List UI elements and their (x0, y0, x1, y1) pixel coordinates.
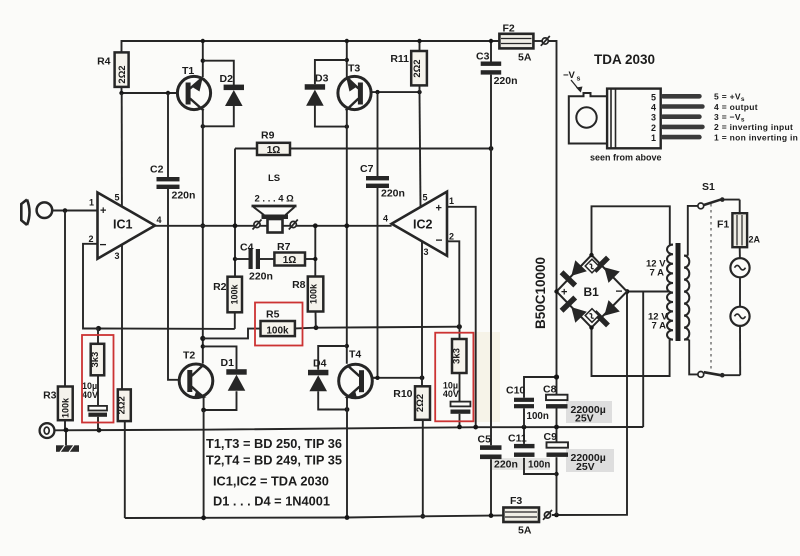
wire C3/C5 long column (490, 41, 492, 62)
B1 ac mark bottom (585, 309, 599, 323)
node B1 bottom corner junction (589, 325, 593, 329)
wire D2 top branch (203, 61, 234, 85)
scan tint patch behind C5/C11 values (492, 458, 550, 470)
wire B1 bottom branch to secondary bottom (592, 328, 670, 376)
input jack symbol (21, 200, 52, 226)
label 12V 7A upper (646, 259, 666, 279)
svg-text:100n: 100n (527, 411, 549, 422)
node R4/pin5 junction (119, 91, 123, 95)
wire D3 bottom branch (315, 103, 347, 127)
pin 5 (661, 94, 702, 99)
wire D1 top link (203, 346, 237, 369)
fuse F2 (499, 23, 533, 64)
wire T4 emitter down to bottom rail (346, 398, 348, 518)
wire R5 left link (203, 329, 261, 339)
red highlight box 1 (82, 335, 114, 423)
svg-text:100k: 100k (230, 283, 240, 304)
wire R4 bottom to T1 base (122, 87, 178, 93)
transistor T1 (177, 65, 210, 111)
wire S1 top pole to primary (688, 206, 698, 256)
wire C10 top link to +V column (524, 377, 557, 398)
node 3k3-1 top junction (96, 326, 101, 331)
svg-text:R11: R11 (390, 53, 409, 65)
node 10u-1 bottom junction (97, 428, 102, 433)
node C7 top junction (375, 90, 379, 94)
node R10 top junction (420, 375, 425, 380)
svg-text:R7: R7 (277, 241, 291, 253)
transformer (667, 243, 689, 341)
capacitor C7 (360, 163, 405, 200)
svg-text:C9: C9 (544, 431, 558, 443)
node C4 tap junction (233, 257, 237, 261)
svg-text:C8: C8 (543, 384, 557, 396)
svg-text:+: + (100, 205, 106, 217)
node bottom rail T2 junction (201, 515, 206, 520)
node T2 emitter junction (201, 408, 206, 413)
node T4 emitter junction (345, 407, 350, 412)
wire IC1 pin5 vertical (121, 93, 123, 207)
node C3 rail junction (489, 39, 493, 43)
node bottom rail C5 junction (489, 513, 494, 518)
wire T4 base line to IC2 pin3 column (372, 377, 422, 379)
svg-text:T2: T2 (183, 350, 195, 362)
op-amp IC1 (89, 193, 162, 262)
svg-text:F2: F2 (503, 23, 515, 35)
wire T2 emitter/D1 bottom link (204, 391, 237, 410)
svg-text:C3: C3 (476, 51, 490, 63)
svg-text:+: + (436, 203, 442, 215)
svg-text:IC1,IC2 = TDA 2030: IC1,IC2 = TDA 2030 (213, 474, 329, 489)
node R5 tap junction (200, 336, 205, 341)
scan tint patch behind C9 value (566, 449, 614, 472)
wire R10 bottom lead (422, 420, 424, 517)
pin 2 (661, 125, 705, 130)
wire T1 emitter chain down to T2 collector (202, 110, 204, 364)
svg-text:−: − (100, 238, 107, 252)
transistor T4 (339, 349, 373, 399)
wire IC2 pin1 loop (447, 207, 476, 427)
node T3/D3 bottom junction (345, 124, 349, 128)
svg-text:D4: D4 (313, 358, 327, 370)
wire F2 right to corner and +V vertical down to C8 (533, 40, 542, 42)
svg-text:2A: 2A (749, 235, 761, 245)
diode in B1 bottom-left edge (560, 296, 588, 324)
wire C10 bottom lead (523, 408, 525, 427)
svg-text:D1 . . . D4 = 1N4001: D1 . . . D4 = 1N4001 (213, 494, 330, 509)
svg-text:100k: 100k (266, 326, 289, 337)
resistor R4 (97, 52, 129, 87)
svg-text:100n: 100n (528, 459, 550, 470)
svg-text:3k3: 3k3 (90, 352, 101, 368)
svg-text:T2,T4 = BD 249, TIP 35: T2,T4 = BD 249, TIP 35 (206, 453, 342, 468)
diode D3 (305, 73, 329, 106)
node T4 base / C7 junction (375, 376, 379, 380)
pin 3 (661, 114, 702, 119)
capacitor C3 (476, 51, 518, 88)
wire D4 bottom / T4 emitter link (318, 391, 347, 409)
terminal 0 (40, 423, 55, 438)
svg-text:C4: C4 (240, 242, 254, 254)
svg-text:S1: S1 (702, 181, 715, 193)
wire R11 leads (419, 41, 421, 51)
wire C7 branch lower to T4 base (372, 188, 378, 378)
svg-text:100k: 100k (309, 283, 319, 304)
diode in B1 bottom-right edge (593, 299, 621, 327)
node C8 ground junction (554, 425, 559, 430)
node B1 top corner junction (589, 253, 593, 257)
node bottom rail T4 junction (345, 515, 350, 520)
svg-text:5: 5 (423, 193, 428, 203)
node R7 right junction (313, 257, 317, 261)
svg-text:−: − (436, 233, 443, 247)
resistor R10 (393, 386, 430, 420)
svg-text:R4: R4 (97, 56, 111, 68)
svg-text:5: 5 (651, 93, 656, 103)
capacitor 10u left electrolytic (82, 375, 107, 430)
capacitor C10 (506, 385, 549, 423)
wire IC1 pin2 loop (83, 244, 99, 329)
resistor R7 (274, 241, 305, 266)
svg-text:−: − (616, 284, 623, 298)
svg-text:TDA 2030: TDA 2030 (594, 52, 655, 67)
package body (607, 89, 661, 149)
node T1 rail junction (201, 39, 205, 43)
node C9/C11 link junction (554, 472, 558, 476)
loudspeaker LS (252, 173, 298, 233)
capacitor C2 (150, 164, 195, 202)
wire T3 emitter chain down to T4 collector (346, 110, 348, 364)
wire C9 column (556, 427, 558, 442)
node T3/D3 top junction (345, 58, 349, 62)
wire C2 branch lower to T2 base (168, 189, 179, 380)
node D4 tap junction (345, 344, 349, 348)
node T1/D2 top junction (201, 59, 205, 63)
scan tint patch behind C8 value (566, 401, 612, 423)
svg-text:7 A: 7 A (650, 268, 665, 279)
node C11 ground junction (522, 425, 527, 430)
node +V / C10 junction (554, 374, 559, 379)
diode D1 (221, 357, 247, 391)
resistor R9 (257, 130, 290, 157)
capacitor C4 (240, 242, 273, 283)
resistor 3k3 left (90, 329, 104, 376)
pin 1 (661, 135, 702, 140)
svg-text:1: 1 (449, 196, 454, 206)
bridge rectifier B1 (557, 255, 628, 328)
svg-text:5A: 5A (518, 52, 532, 64)
svg-text:220n: 220n (494, 459, 518, 471)
ac source upper (730, 247, 749, 277)
wire IC2 pin5 vertical (420, 92, 421, 206)
svg-text:s: s (577, 76, 581, 83)
svg-text:+: + (561, 287, 567, 299)
wire input ground drop (64, 211, 66, 387)
wire C2 branch upper (167, 93, 169, 177)
svg-text:2: 2 (89, 234, 94, 244)
wire T2 emitter down to bottom rail (203, 410, 205, 518)
wire feedback line y327 right (295, 327, 459, 329)
wire 3k3-2 branch (459, 327, 461, 339)
capacitor C11 (508, 433, 550, 471)
wire D3 top branch (315, 60, 347, 84)
node R8 bottom junction (314, 325, 319, 330)
svg-text:C2: C2 (150, 164, 164, 176)
red highlight box 3 (435, 333, 473, 422)
wire C4-R7 link (235, 258, 249, 260)
transformer core (676, 243, 681, 341)
svg-text:D3: D3 (315, 73, 329, 85)
node 10u-2 bottom junction (457, 425, 462, 430)
svg-text:T4: T4 (349, 349, 361, 361)
node R11 bottom junction (417, 90, 421, 94)
connector after F3 (543, 510, 552, 520)
resistor R11 (390, 51, 427, 85)
secondary winding upper (667, 245, 673, 293)
diode D4 (308, 358, 328, 392)
op-amp IC2 (383, 192, 454, 257)
wire ground rail (55, 427, 644, 430)
diode D2 (220, 73, 245, 106)
node C2 top junction (166, 91, 170, 95)
wire bottom rail (125, 515, 504, 518)
svg-text:T1: T1 (182, 65, 194, 77)
svg-text:T1,T3 = BD 250, TIP 36: T1,T3 = BD 250, TIP 36 (206, 436, 342, 451)
wire T3/T4 chain column (346, 41, 348, 78)
svg-text:D2: D2 (220, 73, 234, 85)
svg-text:F1: F1 (717, 219, 729, 231)
svg-text:2Ω2: 2Ω2 (117, 396, 128, 414)
wire bottom rail right of F3 up to B1 minus (552, 292, 627, 516)
capacitor C9 electrolytic (544, 431, 606, 473)
transistor T2 (179, 350, 213, 399)
capacitor C5 (478, 434, 518, 471)
svg-text:2Ω2: 2Ω2 (117, 65, 128, 83)
TDA 2030 package drawing (563, 52, 798, 163)
svg-text:3k3: 3k3 (452, 348, 463, 364)
capacitor C8 electrolytic (543, 384, 606, 425)
svg-text:IC2: IC2 (413, 218, 433, 232)
wire C11 bottom link (524, 458, 557, 474)
wire R2 bottom lead (234, 312, 236, 329)
svg-text:1Ω: 1Ω (267, 145, 281, 156)
fuse F1 (717, 200, 761, 248)
wire output line (155, 225, 392, 227)
svg-text:LS: LS (268, 173, 280, 184)
wire R3 bottom lead (64, 420, 66, 430)
diode in B1 top-right edge (593, 256, 621, 284)
wire input to IC1 pin1 (52, 210, 98, 212)
svg-text:25V: 25V (575, 413, 594, 425)
svg-text:B1: B1 (584, 285, 600, 299)
fuse F3 (503, 495, 539, 537)
wire T3 base line to R11 (371, 91, 420, 93)
wire R9 left vertical (234, 149, 236, 277)
svg-text:2Ω2: 2Ω2 (415, 394, 426, 412)
label 12V 7A lower (648, 312, 668, 332)
svg-text:3: 3 (115, 251, 120, 261)
resistor 2ohm2 left (117, 389, 131, 421)
svg-text:5: 5 (115, 193, 120, 203)
svg-text:7 A: 7 A (652, 321, 667, 332)
svg-text:220n: 220n (494, 75, 518, 87)
wire B1 top branch to secondary top (592, 206, 670, 255)
svg-text:25V: 25V (576, 461, 595, 473)
node R9/R2 output junction (233, 223, 238, 228)
svg-text:seen from above: seen from above (590, 153, 662, 163)
node bottom rail C9 junction (554, 513, 559, 518)
svg-text:R2: R2 (213, 281, 227, 293)
wire center tap to ground rail (627, 292, 670, 428)
svg-text:220n: 220n (249, 271, 273, 283)
svg-text:40V: 40V (443, 389, 459, 399)
package tab (569, 93, 607, 144)
svg-text:R10: R10 (393, 388, 412, 400)
node IC2 pin1 ground junction (473, 425, 478, 430)
svg-text:1: 1 (651, 133, 656, 143)
svg-text:4: 4 (651, 103, 656, 113)
parts list text block (206, 436, 342, 509)
svg-text:R8: R8 (292, 279, 306, 291)
svg-text:IC1: IC1 (113, 218, 133, 232)
svg-text:1 = non inverting in: 1 = non inverting in (714, 132, 798, 142)
wire C8 bottom lead (556, 408, 558, 427)
wire feedback line y329 left (99, 328, 235, 330)
svg-text:2 = inverting input: 2 = inverting input (714, 122, 793, 132)
ground (56, 430, 79, 452)
wire C11 top lead (523, 427, 525, 444)
svg-text:R3: R3 (43, 390, 57, 402)
B1 ac mark top (585, 259, 599, 273)
node T1/D2 bottom junction (201, 124, 205, 128)
svg-text:C11: C11 (508, 433, 527, 445)
svg-text:2 . . . 4 Ω: 2 . . . 4 Ω (255, 194, 295, 205)
svg-text:220n: 220n (172, 190, 196, 202)
capacitor 10u right electrolytic (443, 381, 471, 414)
node 3k3-2 top junction (457, 324, 462, 329)
svg-text:C7: C7 (360, 163, 374, 175)
svg-text:4: 4 (383, 214, 388, 224)
wire IC1 pin3 vertical (121, 244, 123, 389)
svg-text:R9: R9 (261, 130, 275, 142)
transistor T3 (338, 63, 371, 111)
svg-text:1: 1 (89, 198, 94, 208)
secondary winding lower (667, 293, 673, 340)
wire +V top rail (122, 41, 500, 52)
wire C7 branch upper (377, 92, 379, 176)
wire D2 bottom branch (203, 106, 234, 126)
wire S1 bottom pole to primary (689, 340, 698, 375)
diode in B1 top-left edge (560, 259, 588, 287)
svg-text:F3: F3 (510, 495, 522, 507)
svg-text:B50C10000: B50C10000 (533, 257, 548, 329)
resistor R5 (261, 309, 295, 337)
wire IC2 pin2 loop (447, 241, 459, 326)
wire R9 line right to C5 column (235, 148, 491, 150)
connector after F2 (541, 36, 550, 46)
node D1 tap junction (201, 344, 205, 348)
svg-text:2Ω2: 2Ω2 (412, 59, 423, 77)
node output line left junction (200, 223, 205, 228)
svg-text:T3: T3 (348, 63, 360, 75)
switch S1 (688, 181, 740, 378)
wire R7/R8 vertical (314, 226, 316, 277)
svg-text:R5: R5 (266, 309, 280, 321)
svg-text:1Ω: 1Ω (283, 255, 297, 266)
svg-text:2: 2 (651, 123, 656, 133)
node input junction (63, 208, 68, 213)
scan tint patch right of red box 2 (474, 332, 500, 422)
svg-text:3: 3 (424, 247, 429, 257)
resistor 3k3 right (452, 339, 467, 373)
svg-text:4 = output: 4 = output (714, 102, 758, 112)
svg-text:D1: D1 (221, 357, 235, 369)
svg-text:100k: 100k (61, 397, 71, 418)
node R7/R8 output junction (313, 223, 318, 228)
wire IC2 pin3 vertical (421, 241, 423, 386)
node R9 line / C3 column junction (489, 146, 494, 151)
ac source lower (730, 277, 749, 375)
svg-text:C5: C5 (478, 434, 492, 446)
svg-text:4: 4 (157, 215, 162, 225)
node B1 plus corner junction (554, 289, 558, 293)
svg-text:40V: 40V (82, 390, 98, 400)
node R3 bottom junction (64, 428, 69, 433)
resistor R2 (213, 277, 242, 313)
svg-text:220n: 220n (381, 188, 405, 200)
resistor R3 (43, 387, 73, 421)
red highlight box 2 (around R5) (255, 303, 303, 346)
svg-text:C10: C10 (506, 385, 525, 397)
svg-text:3: 3 (651, 113, 656, 123)
wire 2ohm2-1 bottom lead (124, 421, 126, 518)
node B1 minus junction (625, 289, 630, 294)
wire T1 collector from rail (202, 41, 204, 77)
svg-text:−V: −V (563, 70, 576, 81)
primary winding (684, 256, 689, 340)
wire R8 bottom lead (315, 312, 317, 328)
resistor R8 (292, 277, 323, 312)
pin 4 (661, 104, 705, 109)
wire D4 top link (318, 346, 347, 370)
node output line right junction (344, 223, 349, 228)
svg-text:2: 2 (449, 232, 454, 242)
svg-text:5A: 5A (518, 525, 532, 537)
